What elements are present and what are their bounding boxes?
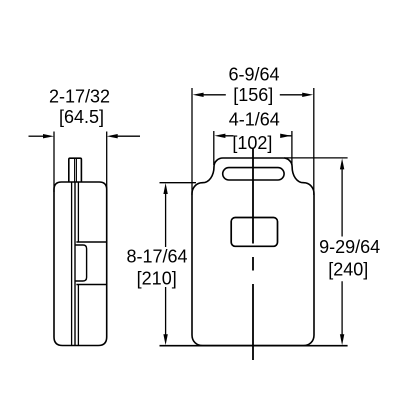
- dim 64.5 right extension line: [106, 132, 108, 193]
- arrowhead 156 left: [193, 93, 204, 97]
- dim 210 line segments: [165, 193, 167, 336]
- side view horizontal line upper: [76, 241, 106, 243]
- dim 102 left extension line: [213, 131, 215, 165]
- side view internal vertical line 3 (broken by small tab): [77, 182, 79, 346]
- side view top tab inner lines: [75, 158, 77, 182]
- svg-text:[156]: [156]: [233, 85, 273, 105]
- arrowhead 240 top: [340, 158, 344, 169]
- front view small rectangle: [231, 218, 277, 247]
- side view horizontal line lower: [76, 284, 106, 286]
- dim 102 line segments: [224, 135, 291, 137]
- arrowhead 102 right: [280, 134, 291, 138]
- bottom shared extension line: [160, 345, 348, 347]
- front view slot (pill) in hump: [223, 168, 284, 180]
- svg-text:9-29/64: 9-29/64: [319, 237, 380, 257]
- dim 64.5 left tail: [29, 135, 45, 137]
- dim 156 line segments: [203, 94, 304, 96]
- arrowhead 64.5 right: [107, 134, 118, 138]
- dim 156 right extension line: [313, 88, 315, 195]
- svg-text:[240]: [240]: [328, 260, 368, 280]
- dim 240 top extension line (from hump top): [284, 157, 348, 159]
- svg-text:[64.5]: [64.5]: [59, 107, 104, 127]
- dim 240 line segments: [341, 168, 343, 336]
- arrowhead 240 bottom: [340, 334, 344, 345]
- side view internal vertical line 2: [74, 182, 76, 346]
- svg-text:6-9/64: 6-9/64: [228, 65, 279, 85]
- arrowhead 156 right: [302, 93, 313, 97]
- center line of front view: [252, 148, 254, 360]
- dim 64.5 right tail: [117, 135, 140, 137]
- front view body outline with top hump: [192, 158, 314, 346]
- svg-text:8-17/64: 8-17/64: [126, 247, 187, 267]
- arrowhead 102 left: [214, 134, 225, 138]
- dim 210 top extension line: [160, 182, 197, 184]
- side view internal vertical line 1: [71, 182, 73, 346]
- svg-text:2-17/32: 2-17/32: [49, 86, 110, 106]
- dim 64.5 left extension line: [53, 132, 55, 193]
- svg-text:4-1/64: 4-1/64: [229, 110, 280, 130]
- side view body outline: [54, 182, 107, 346]
- svg-text:[210]: [210]: [137, 268, 177, 288]
- arrowhead 210 top: [163, 183, 167, 194]
- svg-text:[102]: [102]: [232, 133, 272, 153]
- arrowhead 210 bottom: [163, 334, 167, 345]
- arrowhead 64.5 left: [43, 134, 54, 138]
- dim 102 right extension line: [291, 131, 293, 165]
- side view top tab: [69, 158, 82, 182]
- side view small tab: [76, 245, 87, 281]
- dim 156 left extension line: [191, 88, 193, 195]
